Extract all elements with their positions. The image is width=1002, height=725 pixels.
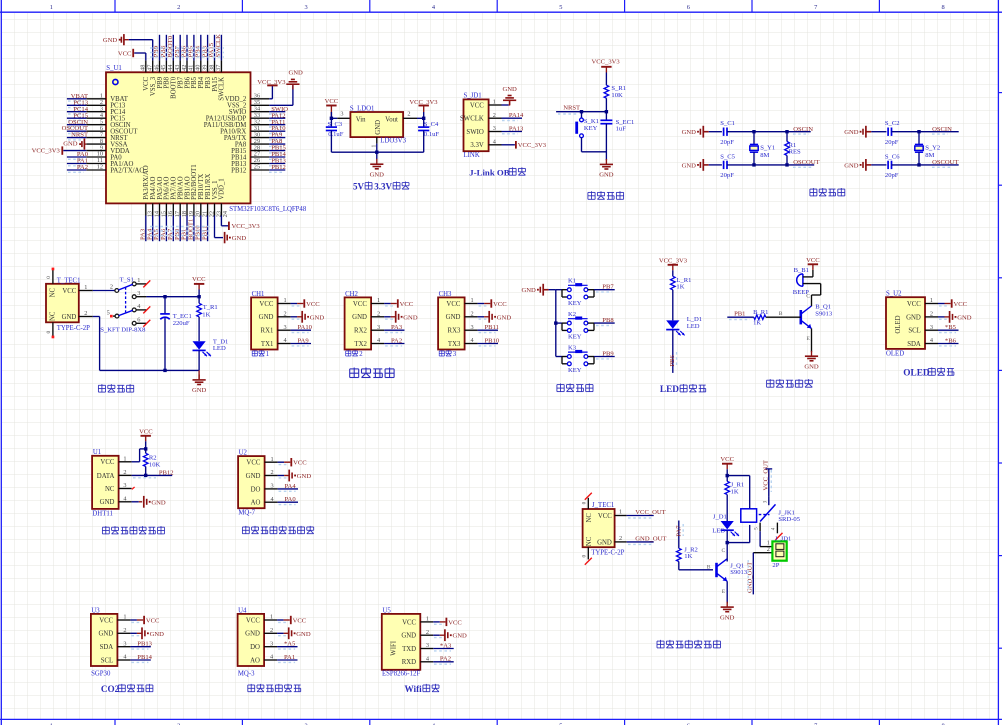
svg-text:C: C <box>722 548 726 554</box>
svg-text:VCC: VCC <box>954 301 968 308</box>
svg-text:PB6: PB6 <box>669 355 676 367</box>
svg-text:20pF: 20pF <box>720 139 734 146</box>
svg-text:PA1: PA1 <box>284 654 295 661</box>
svg-text:VCC: VCC <box>118 50 132 57</box>
svg-text:S_C4: S_C4 <box>424 121 439 128</box>
svg-text:TYPE-C-2P: TYPE-C-2P <box>591 549 624 556</box>
svg-text:S_C6: S_C6 <box>885 153 900 160</box>
svg-text:GND: GND <box>375 120 382 135</box>
svg-text:1: 1 <box>50 4 53 11</box>
svg-text:DATA: DATA <box>97 473 115 480</box>
svg-text:10K: 10K <box>611 92 623 99</box>
svg-text:K2: K2 <box>568 311 576 318</box>
svg-text:C: C <box>806 294 810 300</box>
svg-text:VDD_1: VDD_1 <box>219 178 226 200</box>
svg-text:PA9: PA9 <box>298 337 310 344</box>
svg-text:GND: GND <box>446 314 461 321</box>
svg-text:1uF: 1uF <box>616 126 627 133</box>
svg-text:MQ-3: MQ-3 <box>238 671 255 678</box>
svg-text:RXD: RXD <box>402 659 416 666</box>
svg-text:VCC_3V3: VCC_3V3 <box>232 223 261 230</box>
svg-text:VCC_3V3: VCC_3V3 <box>659 258 688 265</box>
svg-text:B_B1: B_B1 <box>794 267 809 274</box>
svg-text:VCC: VCC <box>325 98 339 105</box>
svg-text:GND: GND <box>957 314 972 321</box>
svg-text:KEY: KEY <box>584 125 598 132</box>
svg-text:3.3V: 3.3V <box>470 142 483 149</box>
svg-text:PA2: PA2 <box>440 656 451 663</box>
svg-text:GND: GND <box>906 314 921 321</box>
svg-text:GND: GND <box>246 473 261 480</box>
svg-text:VCC: VCC <box>100 459 114 466</box>
svg-text:1K: 1K <box>684 553 692 560</box>
svg-text:CH1: CH1 <box>252 291 265 298</box>
svg-text:S9013: S9013 <box>730 569 748 576</box>
svg-text:B: B <box>779 311 783 317</box>
svg-text:S_U2: S_U2 <box>886 291 902 298</box>
svg-text:GND: GND <box>192 387 207 394</box>
svg-text:PB13: PB13 <box>137 641 152 648</box>
svg-text:S_C2: S_C2 <box>885 120 900 127</box>
svg-text:1: 1 <box>137 277 140 284</box>
svg-text:LED: LED <box>712 527 725 534</box>
svg-text:PB1: PB1 <box>734 310 745 317</box>
svg-text:PA2/TX/AO: PA2/TX/AO <box>110 167 144 174</box>
svg-text:J_D1: J_D1 <box>713 513 727 520</box>
svg-text:GND: GND <box>63 141 78 148</box>
svg-text:OSCIN: OSCIN <box>793 126 813 133</box>
svg-text:CO2: CO2 <box>101 684 120 694</box>
svg-text:1K: 1K <box>676 284 684 291</box>
svg-text:6: 6 <box>687 4 690 11</box>
svg-text:GND: GND <box>844 162 859 169</box>
svg-text:LED: LED <box>660 385 679 395</box>
svg-text:20pF: 20pF <box>885 139 899 146</box>
svg-text:PB14: PB14 <box>137 654 152 661</box>
svg-text:U1: U1 <box>93 449 101 456</box>
svg-text:GND: GND <box>150 631 165 638</box>
svg-text:S_Y1: S_Y1 <box>760 145 775 152</box>
svg-text:PA4: PA4 <box>285 483 297 490</box>
svg-text:KEY: KEY <box>568 300 582 307</box>
svg-text:U5: U5 <box>383 607 392 614</box>
svg-text:STM32F103C8T6_LQFP48: STM32F103C8T6_LQFP48 <box>229 206 307 213</box>
svg-text:PB9: PB9 <box>602 350 614 357</box>
svg-text:J_TEC1: J_TEC1 <box>592 502 614 509</box>
svg-text:8M: 8M <box>760 152 769 159</box>
svg-text:GND: GND <box>232 235 247 242</box>
svg-text:1: 1 <box>266 351 269 358</box>
svg-text:S9013: S9013 <box>815 310 833 317</box>
svg-text:LDO3V3: LDO3V3 <box>380 138 406 145</box>
svg-text:1: 1 <box>493 99 496 106</box>
svg-text:NC: NC <box>50 311 57 321</box>
svg-text:Vout: Vout <box>385 116 398 123</box>
svg-text:TX3: TX3 <box>448 341 461 348</box>
svg-text:T_R1: T_R1 <box>203 304 218 311</box>
svg-text:E: E <box>722 589 726 595</box>
svg-text:6: 6 <box>137 317 140 324</box>
svg-text:2: 2 <box>359 351 363 358</box>
svg-text:VCC: VCC <box>402 619 416 626</box>
svg-text:OLED: OLED <box>903 369 930 379</box>
svg-text:LED: LED <box>687 323 700 330</box>
svg-text:1K: 1K <box>753 319 761 326</box>
svg-text:SWCLK: SWCLK <box>215 34 222 58</box>
svg-text:8: 8 <box>941 4 944 11</box>
svg-text:LINK: LINK <box>464 152 480 159</box>
svg-text:GND: GND <box>497 314 512 321</box>
svg-text:PA2: PA2 <box>77 164 88 171</box>
svg-text:GND: GND <box>597 539 612 546</box>
svg-text:SDA: SDA <box>100 644 114 651</box>
svg-text:1K: 1K <box>202 312 210 319</box>
svg-text:GND: GND <box>259 314 274 321</box>
svg-text:*A3: *A3 <box>440 642 452 649</box>
svg-text:3.3V: 3.3V <box>374 181 392 191</box>
svg-text:VCC: VCC <box>353 301 367 308</box>
svg-text:PA7: PA7 <box>676 525 683 537</box>
svg-text:RX1: RX1 <box>261 328 274 335</box>
svg-text:AO: AO <box>251 500 261 507</box>
svg-text:CH3: CH3 <box>439 291 452 298</box>
svg-text:VCC: VCC <box>720 456 734 463</box>
svg-text:VCC: VCC <box>598 513 612 520</box>
svg-text:S_LDO1: S_LDO1 <box>350 106 375 113</box>
svg-text:VCC: VCC <box>139 428 153 435</box>
svg-text:SDA: SDA <box>907 341 921 348</box>
svg-text:GND: GND <box>103 37 118 44</box>
svg-text:OSCIN: OSCIN <box>932 126 952 133</box>
svg-text:220uF: 220uF <box>173 320 190 327</box>
svg-text:VCC: VCC <box>907 301 921 308</box>
svg-text:2: 2 <box>110 284 113 291</box>
svg-text:GND: GND <box>352 314 367 321</box>
svg-text:5V: 5V <box>353 181 365 191</box>
svg-text:2: 2 <box>493 112 496 119</box>
svg-text:VCC: VCC <box>446 301 460 308</box>
svg-text:PA2: PA2 <box>391 337 402 344</box>
svg-text:OSCOUT: OSCOUT <box>932 159 958 166</box>
svg-text:GND: GND <box>844 129 859 136</box>
svg-text:Vin: Vin <box>356 116 366 123</box>
svg-text:OSCOUT: OSCOUT <box>793 159 819 166</box>
svg-text:VCC_3V3: VCC_3V3 <box>32 147 61 154</box>
svg-text:3: 3 <box>493 125 496 132</box>
svg-text:OLED: OLED <box>886 350 904 357</box>
svg-text:20pF: 20pF <box>885 172 899 179</box>
svg-text:20pF: 20pF <box>720 172 734 179</box>
svg-text:GND: GND <box>370 171 385 178</box>
svg-text:S_KFT DIP-8X8: S_KFT DIP-8X8 <box>100 327 146 334</box>
svg-text:3: 3 <box>453 351 457 358</box>
svg-text:KEY: KEY <box>568 367 582 374</box>
svg-text:PB11: PB11 <box>201 226 208 240</box>
svg-text:PB12: PB12 <box>271 164 286 171</box>
svg-text:GND: GND <box>401 633 416 640</box>
svg-text:VCC: VCC <box>146 618 160 625</box>
svg-text:WIFI: WIFI <box>391 640 398 655</box>
svg-text:VCC: VCC <box>293 460 307 467</box>
svg-text:E: E <box>807 336 811 342</box>
svg-text:0.1uF: 0.1uF <box>328 131 344 138</box>
svg-text:B_R1: B_R1 <box>753 309 768 316</box>
svg-text:S_C3: S_C3 <box>328 121 343 128</box>
svg-text:SWCLK: SWCLK <box>460 116 484 123</box>
svg-text:0.1uF: 0.1uF <box>424 131 440 138</box>
svg-text:2: 2 <box>84 310 87 317</box>
svg-text:T_S1: T_S1 <box>120 276 134 283</box>
svg-text:VCC: VCC <box>448 619 462 626</box>
svg-text:VCC: VCC <box>99 617 113 624</box>
svg-text:PB11: PB11 <box>485 324 499 331</box>
svg-text:TX2: TX2 <box>354 341 367 348</box>
svg-text:TXD: TXD <box>402 646 416 653</box>
svg-text:GND: GND <box>288 69 303 76</box>
svg-text:VCC: VCC <box>293 618 307 625</box>
svg-text:GND_OUT: GND_OUT <box>635 536 666 543</box>
svg-text:NRST: NRST <box>563 105 580 112</box>
svg-text:SWIO: SWIO <box>466 129 483 136</box>
svg-text:VCC: VCC <box>62 288 76 295</box>
svg-text:GND: GND <box>296 631 311 638</box>
svg-text:VCC_3V3: VCC_3V3 <box>518 142 547 149</box>
svg-text:T_TEC1: T_TEC1 <box>57 278 81 285</box>
svg-text:*A5: *A5 <box>284 641 296 648</box>
svg-text:TX1: TX1 <box>261 341 273 348</box>
svg-text:2: 2 <box>407 110 410 117</box>
svg-text:PB7: PB7 <box>602 284 614 291</box>
svg-text:3: 3 <box>137 290 140 297</box>
svg-text:8M: 8M <box>925 152 934 159</box>
svg-text:U2: U2 <box>239 450 248 457</box>
svg-text:VCC: VCC <box>493 301 507 308</box>
svg-text:GND: GND <box>720 615 735 622</box>
svg-text:LED: LED <box>213 345 226 352</box>
svg-text:GND: GND <box>522 287 537 294</box>
svg-text:SCL: SCL <box>908 328 920 335</box>
svg-text:GND: GND <box>100 499 115 506</box>
svg-text:GND: GND <box>599 171 614 178</box>
svg-text:SGP30: SGP30 <box>91 671 111 678</box>
svg-text:PA3: PA3 <box>391 324 403 331</box>
svg-text:SRD-05: SRD-05 <box>778 516 800 523</box>
svg-text:10K: 10K <box>149 461 161 468</box>
svg-text:Wifi: Wifi <box>405 684 423 694</box>
svg-text:PA10: PA10 <box>298 324 313 331</box>
svg-text:VCC: VCC <box>246 460 260 467</box>
svg-text:SWCLK: SWCLK <box>219 77 226 101</box>
svg-text:RES: RES <box>789 149 801 156</box>
svg-text:RX3: RX3 <box>448 328 461 335</box>
svg-text:GND: GND <box>151 499 166 506</box>
svg-text:*B6: *B6 <box>945 337 957 344</box>
svg-text:PB10: PB10 <box>485 337 500 344</box>
svg-text:VCC: VCC <box>806 257 820 264</box>
svg-text:OLED: OLED <box>895 315 902 333</box>
svg-text:37: 37 <box>215 65 222 71</box>
svg-text:GND: GND <box>297 473 312 480</box>
svg-text:K3: K3 <box>568 344 577 351</box>
svg-text:S_JD1: S_JD1 <box>464 92 482 99</box>
svg-text:PA13: PA13 <box>509 126 524 133</box>
svg-text:VCC: VCC <box>259 301 273 308</box>
svg-text:ESP8266-12F: ESP8266-12F <box>382 671 420 678</box>
svg-text:GND: GND <box>453 633 468 640</box>
svg-text:PA0: PA0 <box>285 496 297 503</box>
svg-text:5: 5 <box>107 309 110 316</box>
svg-text:VCC: VCC <box>306 301 320 308</box>
svg-text:2: 2 <box>177 4 180 11</box>
svg-text:VCC: VCC <box>470 102 484 109</box>
svg-text:3: 3 <box>340 110 343 117</box>
svg-text:2P: 2P <box>772 562 779 569</box>
svg-text:24: 24 <box>222 210 229 217</box>
svg-text:2: 2 <box>767 546 770 553</box>
svg-text:3: 3 <box>304 4 307 11</box>
svg-text:S_C5: S_C5 <box>720 153 735 160</box>
svg-text:NC: NC <box>50 287 57 297</box>
svg-text:GND: GND <box>62 314 77 321</box>
svg-text:2: 2 <box>619 535 622 542</box>
svg-text:GND: GND <box>310 314 325 321</box>
svg-text:1: 1 <box>619 509 622 516</box>
svg-text:RX2: RX2 <box>354 328 367 335</box>
svg-text:J-Link OB: J-Link OB <box>469 168 509 178</box>
svg-text:J_JD1: J_JD1 <box>775 536 792 543</box>
svg-text:VCC: VCC <box>246 617 260 624</box>
svg-text:VCC_OUT: VCC_OUT <box>635 509 665 516</box>
svg-text:GND: GND <box>98 631 113 638</box>
svg-text:GND: GND <box>682 162 697 169</box>
svg-text:GND: GND <box>502 86 517 93</box>
svg-text:GND: GND <box>245 631 260 638</box>
svg-text:1K: 1K <box>731 489 739 496</box>
svg-text:DO: DO <box>250 644 260 651</box>
svg-text:NRST: NRST <box>71 132 88 139</box>
svg-text:PB12: PB12 <box>231 167 247 174</box>
svg-text:1: 1 <box>84 284 87 291</box>
svg-text:KEY: KEY <box>568 333 582 340</box>
svg-text:S_C1: S_C1 <box>720 120 735 127</box>
svg-text:GND: GND <box>804 363 819 370</box>
svg-text:NC: NC <box>586 536 593 546</box>
svg-text:*B5: *B5 <box>945 324 957 331</box>
svg-text:VCC_3V3: VCC_3V3 <box>257 79 286 86</box>
svg-text:VCC_OUT: VCC_OUT <box>763 460 770 490</box>
svg-text:5: 5 <box>559 4 562 11</box>
svg-text:VCC: VCC <box>400 301 414 308</box>
svg-text:S_Y2: S_Y2 <box>925 145 940 152</box>
svg-text:MQ-7: MQ-7 <box>238 510 255 517</box>
svg-text:DO: DO <box>251 486 261 493</box>
svg-text:S_U1: S_U1 <box>106 65 122 72</box>
svg-text:TYPE-C-2P: TYPE-C-2P <box>57 325 90 332</box>
svg-text:PB8: PB8 <box>602 317 614 324</box>
svg-text:PA14: PA14 <box>509 112 524 119</box>
svg-text:VCC: VCC <box>192 276 206 283</box>
svg-text:GND: GND <box>403 314 418 321</box>
svg-text:VCC_3V3: VCC_3V3 <box>591 58 620 65</box>
svg-text:U4: U4 <box>238 607 247 614</box>
svg-text:GND_OUT: GND_OUT <box>746 562 753 593</box>
svg-text:K1: K1 <box>568 278 576 285</box>
svg-text:NC: NC <box>105 486 115 493</box>
svg-text:GND: GND <box>682 129 697 136</box>
svg-text:SCL: SCL <box>101 657 113 664</box>
svg-text:DHT11: DHT11 <box>92 510 113 517</box>
svg-text:U3: U3 <box>91 607 100 614</box>
svg-text:CH2: CH2 <box>345 291 358 298</box>
svg-text:AO: AO <box>250 657 260 664</box>
svg-text:PB12: PB12 <box>159 469 174 476</box>
svg-text:NC: NC <box>586 513 593 523</box>
